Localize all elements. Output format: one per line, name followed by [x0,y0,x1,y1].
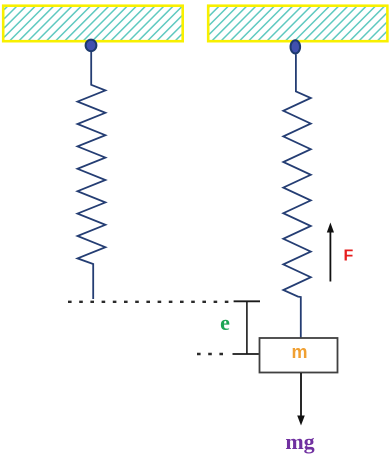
extension bracket vertical [246,301,248,354]
spring left (unstretched) [78,52,106,299]
pin left (attachment knob) [86,40,97,52]
svg-text:e: e [220,310,230,335]
dotted reference line (stretched level) [197,353,228,355]
dotted reference line (natural length level) [68,301,232,303]
svg-text:m: m [291,342,307,362]
svg-text:mg: mg [285,429,314,454]
extension bracket top bar [234,300,260,302]
spring right (stretched) [283,55,311,338]
svg-text:F: F [344,248,354,265]
weight mg arrowhead [297,416,305,426]
mass box [260,338,338,373]
ceiling left (hatched support) [3,6,183,42]
ceiling right (hatched support) [208,6,387,42]
pin right (attachment knob) [291,40,301,53]
force F arrowhead [327,223,334,233]
weight mg arrow line [300,373,302,417]
extension bracket bottom bar [233,353,259,355]
force F arrow line [329,231,331,282]
